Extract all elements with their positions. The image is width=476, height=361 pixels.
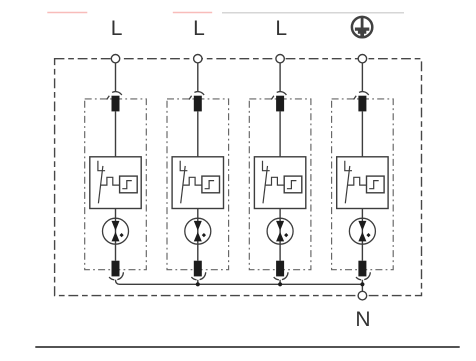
PE earth terminal icon circle xyxy=(352,17,372,37)
decorative pink rule mid xyxy=(173,12,212,14)
junction node module2 xyxy=(196,282,200,286)
outer unit dashed enclosure xyxy=(55,59,422,296)
junction node module4 xyxy=(360,282,364,286)
wire module2 to bus xyxy=(197,280,199,285)
decorative gray rule xyxy=(222,12,404,14)
svg-text:L: L xyxy=(111,17,123,40)
N bus wire xyxy=(116,280,363,285)
wire module3 to bus xyxy=(279,280,281,285)
terminal L3 xyxy=(276,55,284,63)
wire module4 to N terminal xyxy=(361,280,363,292)
module 2 (L2 path) xyxy=(167,63,229,280)
footer rule xyxy=(35,346,459,348)
junction node module3 xyxy=(278,282,282,286)
module 4 (N-PE spark gap path) xyxy=(332,63,394,280)
svg-text:L: L xyxy=(275,17,287,40)
decorative pink rule left xyxy=(47,12,87,14)
terminal PE xyxy=(358,55,366,63)
module 3 (L3 path) xyxy=(249,63,311,280)
svg-text:L: L xyxy=(193,17,205,40)
terminal L2 xyxy=(194,55,202,63)
PE earth glyph xyxy=(355,18,369,36)
terminal L1 xyxy=(111,55,119,63)
terminal N xyxy=(358,291,367,300)
svg-text:N: N xyxy=(355,308,370,331)
module 1 (L1 path) xyxy=(85,63,147,280)
